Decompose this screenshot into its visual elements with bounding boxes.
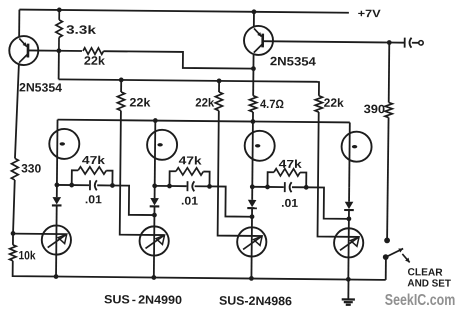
node combo 2 left <box>167 184 172 189</box>
wire Q1 base column to bus <box>58 51 60 80</box>
svg-text:.01: .01 <box>85 194 103 206</box>
wire gate to 47k combo 3 <box>252 186 267 188</box>
wire to SUS1 input <box>13 233 67 236</box>
svg-text:2N5354: 2N5354 <box>19 80 62 94</box>
SUS Q4 stage 2 <box>139 226 168 255</box>
node ground rail stage 1 <box>54 274 59 279</box>
resistor 3.3k <box>58 10 60 20</box>
SUS Q3 stage 1 <box>42 225 71 254</box>
terminal input (open circle) <box>419 41 423 45</box>
svg-text:2N5354: 2N5354 <box>270 54 316 68</box>
svg-text:10k: 10k <box>18 248 35 262</box>
wire Q1 base <box>28 49 59 51</box>
node 330/10k junction <box>11 231 16 236</box>
node ground rail stage 4 <box>346 277 351 282</box>
wire Q1 collector down to 330 <box>15 65 19 159</box>
wire 22k col1 down to SUS2 input <box>120 111 166 235</box>
resistor 22k coupling (horizontal) <box>59 50 82 52</box>
node ground rail stage 2 <box>151 275 156 280</box>
svg-text:47k: 47k <box>279 159 303 171</box>
resistor 47k stage 2 <box>169 171 175 186</box>
wire diode to SUS 2 anode and through to rail <box>153 206 156 277</box>
wire gate to 47k combo 1 <box>57 184 72 186</box>
indicator lamp L2 <box>147 130 177 160</box>
wire Q1 emitter to rail <box>18 10 20 36</box>
capacitor .01 stage 3 <box>267 186 283 188</box>
resistor 10k <box>12 233 14 244</box>
svg-text:SUS - 2N4990: SUS - 2N4990 <box>104 292 183 307</box>
SUS Q6 stage 4 <box>334 228 363 257</box>
node SUS 2 anode <box>152 213 157 218</box>
resistor 22k column 3 <box>317 82 319 96</box>
node Q1 base junction <box>56 48 61 53</box>
wire stage 2 vertical (bus to gate) <box>154 121 157 186</box>
resistor 22k column 2 <box>218 81 220 92</box>
capacitor .01 stage 1 <box>72 184 89 186</box>
svg-text:22k: 22k <box>84 54 105 68</box>
indicator lamp L3 <box>245 131 275 161</box>
node combo 3 right <box>304 185 309 190</box>
wire diode to SUS 1 anode and through to rail <box>55 205 58 276</box>
svg-text:22k: 22k <box>195 95 214 109</box>
wire base bus <box>59 79 318 81</box>
svg-text:.01: .01 <box>181 196 199 208</box>
wire stage 4 vertical (bus to gate) <box>348 122 351 187</box>
wire 22k to Q2 emitter (stepped) <box>103 51 253 68</box>
ground symbol <box>347 279 349 299</box>
svg-text:22k: 22k <box>324 96 344 110</box>
svg-text:AND SET: AND SET <box>407 278 451 289</box>
node base / 390 junction <box>387 40 392 45</box>
wire lamp bus <box>58 120 350 123</box>
svg-text:47k: 47k <box>82 155 106 167</box>
resistor 47k stage 3 <box>267 172 273 187</box>
node gate junction stage 3 <box>250 184 255 189</box>
switch CLEAR AND SET - fixed terminal <box>384 237 390 243</box>
node lamp bus / stage2 <box>153 118 158 123</box>
node combo 2 right <box>207 184 212 189</box>
svg-text:SUS-2N4986: SUS-2N4986 <box>219 294 292 309</box>
wire switch common to rail <box>385 257 387 280</box>
diode stage 2 <box>154 186 156 198</box>
capacitor input coupling <box>404 38 406 48</box>
node ground rail stage 3 <box>249 276 254 281</box>
wire combo 1 to next SUS anode (jog) <box>112 185 155 215</box>
resistor 4.7 ohm <box>252 69 254 96</box>
resistor 390 <box>388 43 391 103</box>
svg-text:330: 330 <box>21 161 41 175</box>
node top rail / 3.3k junction <box>57 8 62 13</box>
wire Q2 column rail to emitter junction <box>253 12 255 26</box>
node Q2 emitter junction <box>251 66 256 71</box>
svg-text:4.7Ω: 4.7Ω <box>260 97 284 111</box>
wire base node to capacitor <box>389 42 404 44</box>
node lamp bus / stage3 <box>250 119 255 124</box>
svg-text:22k: 22k <box>129 95 150 109</box>
wire stage 3 vertical (bus to gate) <box>251 122 254 187</box>
switch motion arrow <box>402 254 409 262</box>
resistor 47k stage 1 <box>72 170 78 185</box>
wire 10k to ground rail <box>13 261 57 277</box>
wire Q2 base to RC node <box>263 41 390 42</box>
wire capacitor to input terminal <box>412 42 419 44</box>
svg-text:47k: 47k <box>179 155 203 167</box>
resistor 22k column 1 <box>120 80 122 92</box>
wire diode to SUS 3 anode and through to rail <box>250 208 253 278</box>
node gate junction stage 1 <box>54 183 59 188</box>
SUS Q5 stage 3 <box>237 227 266 256</box>
wire gate to 47k combo 2 <box>155 185 170 187</box>
svg-text:+7V: +7V <box>358 8 382 20</box>
node bus / 22k column 2 <box>217 78 222 83</box>
svg-text:390: 390 <box>364 102 386 116</box>
diode stage 4 <box>348 188 350 202</box>
wire combo 3 to next SUS anode (jog) <box>306 187 349 219</box>
node SUS 3 anode <box>250 214 255 219</box>
wire bottom ground rail <box>56 277 386 280</box>
resistor 330 <box>11 158 18 180</box>
svg-text:.01: .01 <box>281 198 299 210</box>
node combo 1 right <box>110 183 115 188</box>
node bus / 22k column 1 <box>119 78 124 83</box>
node combo 3 left <box>265 185 270 190</box>
indicator lamp L1 <box>49 129 79 159</box>
wire diode to SUS 4 anode and through to rail <box>347 210 350 279</box>
node top rail / Q2 emitter junction <box>252 9 257 14</box>
transistor Q2 (PNP 2N5354) <box>244 26 273 55</box>
diode stage 1 <box>56 185 58 197</box>
diode stage 3 <box>251 187 253 200</box>
transistor Q1 (PNP 2N5354) <box>9 36 38 65</box>
wire stage 1 vertical (bus to gate) <box>56 120 59 185</box>
svg-text:CLEAR: CLEAR <box>408 267 444 278</box>
wire +7V top rail <box>19 10 348 13</box>
node combo 1 left <box>69 183 74 188</box>
switch common terminal <box>383 254 389 260</box>
node SUS 4 anode <box>346 216 351 221</box>
node gate junction stage 2 <box>152 183 157 188</box>
indicator lamp L4 <box>341 132 371 162</box>
svg-text:SeekIC.com: SeekIC.com <box>385 292 456 309</box>
capacitor .01 stage 2 <box>169 185 186 187</box>
wire 22k col2 down to SUS3 input <box>218 111 264 236</box>
switch arm <box>386 248 403 257</box>
wire combo 2 to next SUS anode (jog) <box>209 186 252 216</box>
svg-text:3.3k: 3.3k <box>66 23 97 37</box>
wire 22k col3 down to SUS4 input <box>318 112 361 237</box>
